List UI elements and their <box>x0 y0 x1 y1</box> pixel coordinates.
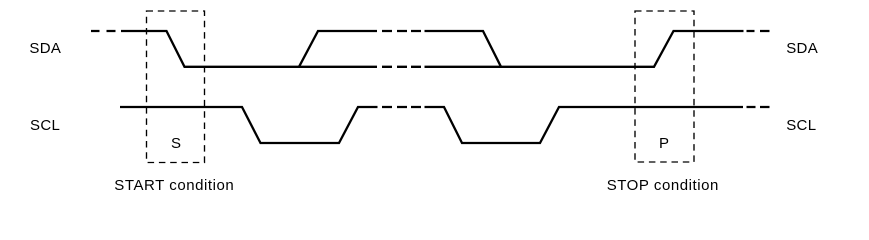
svg-text:SDA: SDA <box>29 40 61 57</box>
wire SCL left section high-low-high <box>120 107 378 143</box>
svg-text:SDA: SDA <box>786 40 818 57</box>
wire SDA break dashes (low level) <box>382 66 421 68</box>
wire SDA high plateau after break and mid falling edge <box>425 31 502 67</box>
svg-text:SCL: SCL <box>786 117 816 134</box>
START condition box <box>147 11 205 163</box>
svg-text:P: P <box>659 135 669 152</box>
svg-text:START condition: START condition <box>114 177 234 194</box>
STOP condition box <box>635 11 694 162</box>
wire SCL trailing dashes <box>747 106 770 108</box>
wire SDA low after break and STOP rising edge to high <box>425 31 744 67</box>
svg-text:SCL: SCL <box>30 117 60 134</box>
wire SDA high into START fall to low <box>121 31 377 67</box>
wire SCL break dashes <box>382 106 421 108</box>
svg-text:STOP condition: STOP condition <box>607 177 719 194</box>
wire SDA trailing dashes <box>747 30 770 32</box>
wire SDA mid rising edge and high plateau <box>299 31 377 67</box>
wire SDA lead-in dashes <box>91 30 116 32</box>
wire SCL right section high-low-high <box>425 107 744 143</box>
svg-text:S: S <box>171 135 181 152</box>
wire SDA break dashes (high level) <box>382 30 421 32</box>
